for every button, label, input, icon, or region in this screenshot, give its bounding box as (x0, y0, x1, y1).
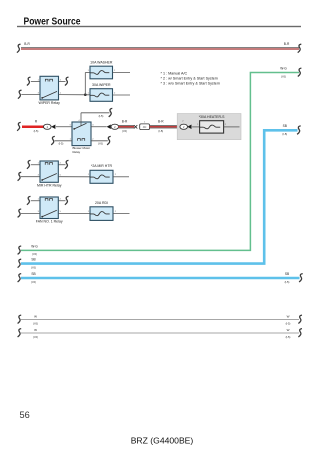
svg-text:3: 3 (92, 125, 94, 127)
wire to WIPER relay switch (21, 94, 40, 96)
wire from 10A WASHER pin 2 (113, 72, 130, 74)
svg-text:MIR HTR Relay: MIR HTR Relay (37, 183, 62, 187)
connector arrow (left of Blower relay) (51, 125, 55, 129)
break left of W 2 (18, 329, 22, 337)
fuse 30A WIPER (90, 89, 113, 102)
svg-text:2: 2 (114, 93, 116, 95)
svg-text:(I-5): (I-5) (98, 142, 103, 146)
wire B-R main (top) (21, 48, 299, 49)
svg-text:(I-5): (I-5) (31, 280, 36, 284)
wire W-G (green) (21, 73, 299, 251)
break left of SB 1 (18, 259, 22, 267)
svg-text:(I-5): (I-5) (286, 335, 291, 339)
break right of FAN coil (65, 196, 69, 204)
junction connector J/C (140, 124, 150, 130)
wire from FAN relay coil (58, 200, 66, 202)
fuse 10A WASHER (90, 66, 113, 79)
wire from WIPER relay coil pin 2 (59, 81, 66, 83)
svg-text:B-R: B-R (284, 42, 290, 46)
svg-text:30A WIPER: 30A WIPER (92, 83, 111, 87)
svg-text:(I-5): (I-5) (281, 74, 286, 78)
break right of W-G (298, 68, 302, 76)
svg-text:5: 5 (60, 175, 62, 177)
break right of B-R top (298, 44, 302, 52)
svg-text:(I-5): (I-5) (59, 142, 64, 146)
svg-text:56: 56 (20, 410, 30, 420)
note asterisk legend (161, 72, 220, 86)
svg-text:WIPER Relay: WIPER Relay (38, 101, 60, 105)
svg-text:(I-5): (I-5) (31, 265, 36, 269)
wire to FAN relay switch (21, 212, 40, 214)
break left of wire R (17, 122, 21, 130)
relay WIPER Relay (40, 76, 59, 100)
svg-text:BRZ (G4400BE): BRZ (G4400BE) (131, 435, 194, 445)
fuse 30A HEATER-S (200, 121, 224, 133)
wire MIR HTR relay to fuse (58, 176, 90, 178)
wire to 10A WASHER fuse (85, 72, 90, 74)
wire from blower coil pin 2 (91, 140, 108, 142)
fuse 20A RDI (90, 207, 113, 221)
svg-text:1: 1 (144, 121, 146, 123)
svg-text:(I-5): (I-5) (33, 321, 38, 325)
break left of WIPER relay coil (27, 77, 31, 85)
svg-text:J/C: J/C (143, 126, 147, 129)
connector arrow (panel) (187, 125, 191, 129)
break right of MIR HTR coil (65, 160, 69, 168)
svg-text:*30A HEATER-S: *30A HEATER-S (199, 115, 225, 119)
wire FAN relay to fuse (58, 212, 90, 214)
svg-text:* 1 : Manual A/C: * 1 : Manual A/C (161, 72, 188, 76)
svg-text:3: 3 (38, 175, 40, 177)
svg-text:5: 5 (60, 211, 62, 213)
break right of SB 2 (299, 274, 303, 282)
svg-text:W: W (287, 328, 290, 332)
svg-text:(I-5): (I-5) (158, 129, 163, 133)
svg-text:(I-5): (I-5) (282, 132, 287, 136)
wire WIPER relay to 30A WIPER fuse (59, 94, 91, 96)
break left of FAN coil (27, 196, 31, 204)
break right of W 1 (298, 315, 302, 323)
wire B-R segment 1 (118, 126, 134, 129)
svg-text:B-R: B-R (24, 42, 30, 46)
svg-text:1: 1 (70, 139, 72, 141)
svg-text:1: 1 (38, 199, 40, 201)
svg-text:* 3 : w/o Smart Entry & Start: * 3 : w/o Smart Entry & Start System (161, 82, 220, 86)
wire blower relay pin 3 out (91, 126, 107, 128)
connector 2 (right of Blower relay) (111, 124, 119, 129)
svg-text:(I-5): (I-5) (33, 335, 38, 339)
svg-text:(I-5): (I-5) (285, 280, 290, 284)
svg-text:W: W (34, 314, 37, 318)
svg-text:2: 2 (60, 163, 62, 165)
wire from MIR HTR relay coil (58, 164, 65, 166)
break at blower pin4 branch (109, 108, 113, 116)
svg-text:W-G: W-G (280, 66, 287, 70)
break left of blower coil (51, 136, 55, 144)
svg-text:FAN NO. 1 Relay: FAN NO. 1 Relay (36, 220, 63, 224)
wire to MIR HTR relay coil (31, 164, 40, 166)
break right of SB 1 (297, 126, 301, 134)
svg-text:1: 1 (88, 93, 90, 95)
break left of MIR HTR switch (18, 172, 22, 180)
svg-text:2: 2 (60, 199, 62, 201)
svg-text:Relay: Relay (73, 150, 81, 154)
wire from 20A RDI fuse (113, 213, 130, 215)
break right of blower coil (107, 136, 111, 144)
break right of W 2 (298, 329, 302, 337)
svg-text:Power Source: Power Source (24, 16, 81, 27)
break left of W 1 (18, 315, 22, 323)
wire into Blower relay pin (56, 126, 72, 128)
break left of WIPER relay switch (18, 90, 22, 98)
wire from 30A WIPER pin 2 (113, 94, 130, 96)
svg-text:(I-5): (I-5) (122, 129, 127, 133)
svg-text:2: 2 (92, 139, 94, 141)
break left of W-G (18, 246, 22, 254)
svg-text:(I-5): (I-5) (286, 321, 291, 325)
svg-text:SB: SB (31, 258, 35, 262)
break left of MIR HTR coil (27, 160, 31, 168)
svg-text:2: 2 (115, 211, 117, 213)
wire W (white) 2 (21, 332, 299, 334)
wire to MIR HTR relay switch (21, 176, 40, 178)
svg-text:* 2 : w/ Smart Entry & Start S: * 2 : w/ Smart Entry & Start System (161, 77, 218, 81)
break left of FAN switch (18, 209, 22, 217)
wire junction riser (84, 73, 86, 95)
svg-text:(I-5): (I-5) (32, 252, 37, 256)
svg-text:W: W (34, 328, 37, 332)
svg-text:R: R (35, 120, 38, 124)
wire from MIR HTR fuse (113, 176, 129, 178)
svg-text:3: 3 (38, 92, 40, 94)
svg-text:1: 1 (88, 70, 90, 72)
wire R (red) to Blower Motor Relay (22, 126, 44, 128)
svg-text:(I-5): (I-5) (34, 129, 39, 133)
svg-text:(I-5): (I-5) (99, 114, 104, 118)
svg-text:2: 2 (114, 70, 116, 72)
wire to blower coil pin 1 (55, 140, 72, 142)
wire to WIPER relay coil pin 1 (31, 81, 40, 83)
title underline (17, 26, 301, 27)
svg-text:1: 1 (38, 163, 40, 165)
wire B-R segment 2 (150, 126, 181, 129)
svg-text:1: 1 (60, 92, 62, 94)
svg-text:1: 1 (88, 211, 90, 213)
break right of WIPER relay coil (65, 77, 69, 85)
connector 2 (left of Blower relay) (44, 124, 52, 129)
svg-text:B-R: B-R (158, 120, 164, 124)
splice X (134, 125, 137, 128)
svg-text:B-R: B-R (122, 120, 128, 124)
wire to heater fuse (192, 126, 199, 128)
wire blower relay pin 4 branch (81, 112, 110, 114)
svg-text:20A RDI: 20A RDI (95, 201, 108, 205)
panel fuse block (gray) (177, 114, 241, 140)
svg-text:2: 2 (115, 174, 117, 176)
wire to FAN relay coil (31, 200, 40, 202)
wire from heater fuse pin 2 (224, 126, 240, 128)
svg-text:SB: SB (283, 124, 287, 128)
break left of B-R top (17, 44, 21, 52)
junction node (84, 93, 87, 96)
svg-text:SB: SB (285, 272, 289, 276)
svg-text:10A WASHER: 10A WASHER (90, 61, 113, 65)
svg-text:W: W (287, 314, 290, 318)
svg-text:5: 5 (70, 125, 72, 127)
connector 2 (panel) (180, 124, 188, 129)
break left of SB 2 (18, 274, 22, 282)
svg-text:*2A MIR HTR: *2A MIR HTR (91, 164, 112, 168)
svg-text:SB: SB (31, 272, 35, 276)
svg-text:3: 3 (38, 211, 40, 213)
wire SB (sky blue) 2 (21, 277, 300, 280)
wire SB (sky blue) 1 (21, 130, 298, 263)
fuse 2A MIR HTR (90, 170, 113, 183)
wire W (white) 1 (21, 319, 299, 321)
svg-text:1: 1 (88, 174, 90, 176)
connector arrow (right of Blower relay) (107, 125, 111, 129)
relay MIR HTR Relay (40, 161, 58, 182)
svg-text:W-G: W-G (31, 244, 38, 248)
relay FAN NO. 1 Relay (40, 197, 58, 219)
relay Blower Motor Relay (72, 113, 91, 146)
